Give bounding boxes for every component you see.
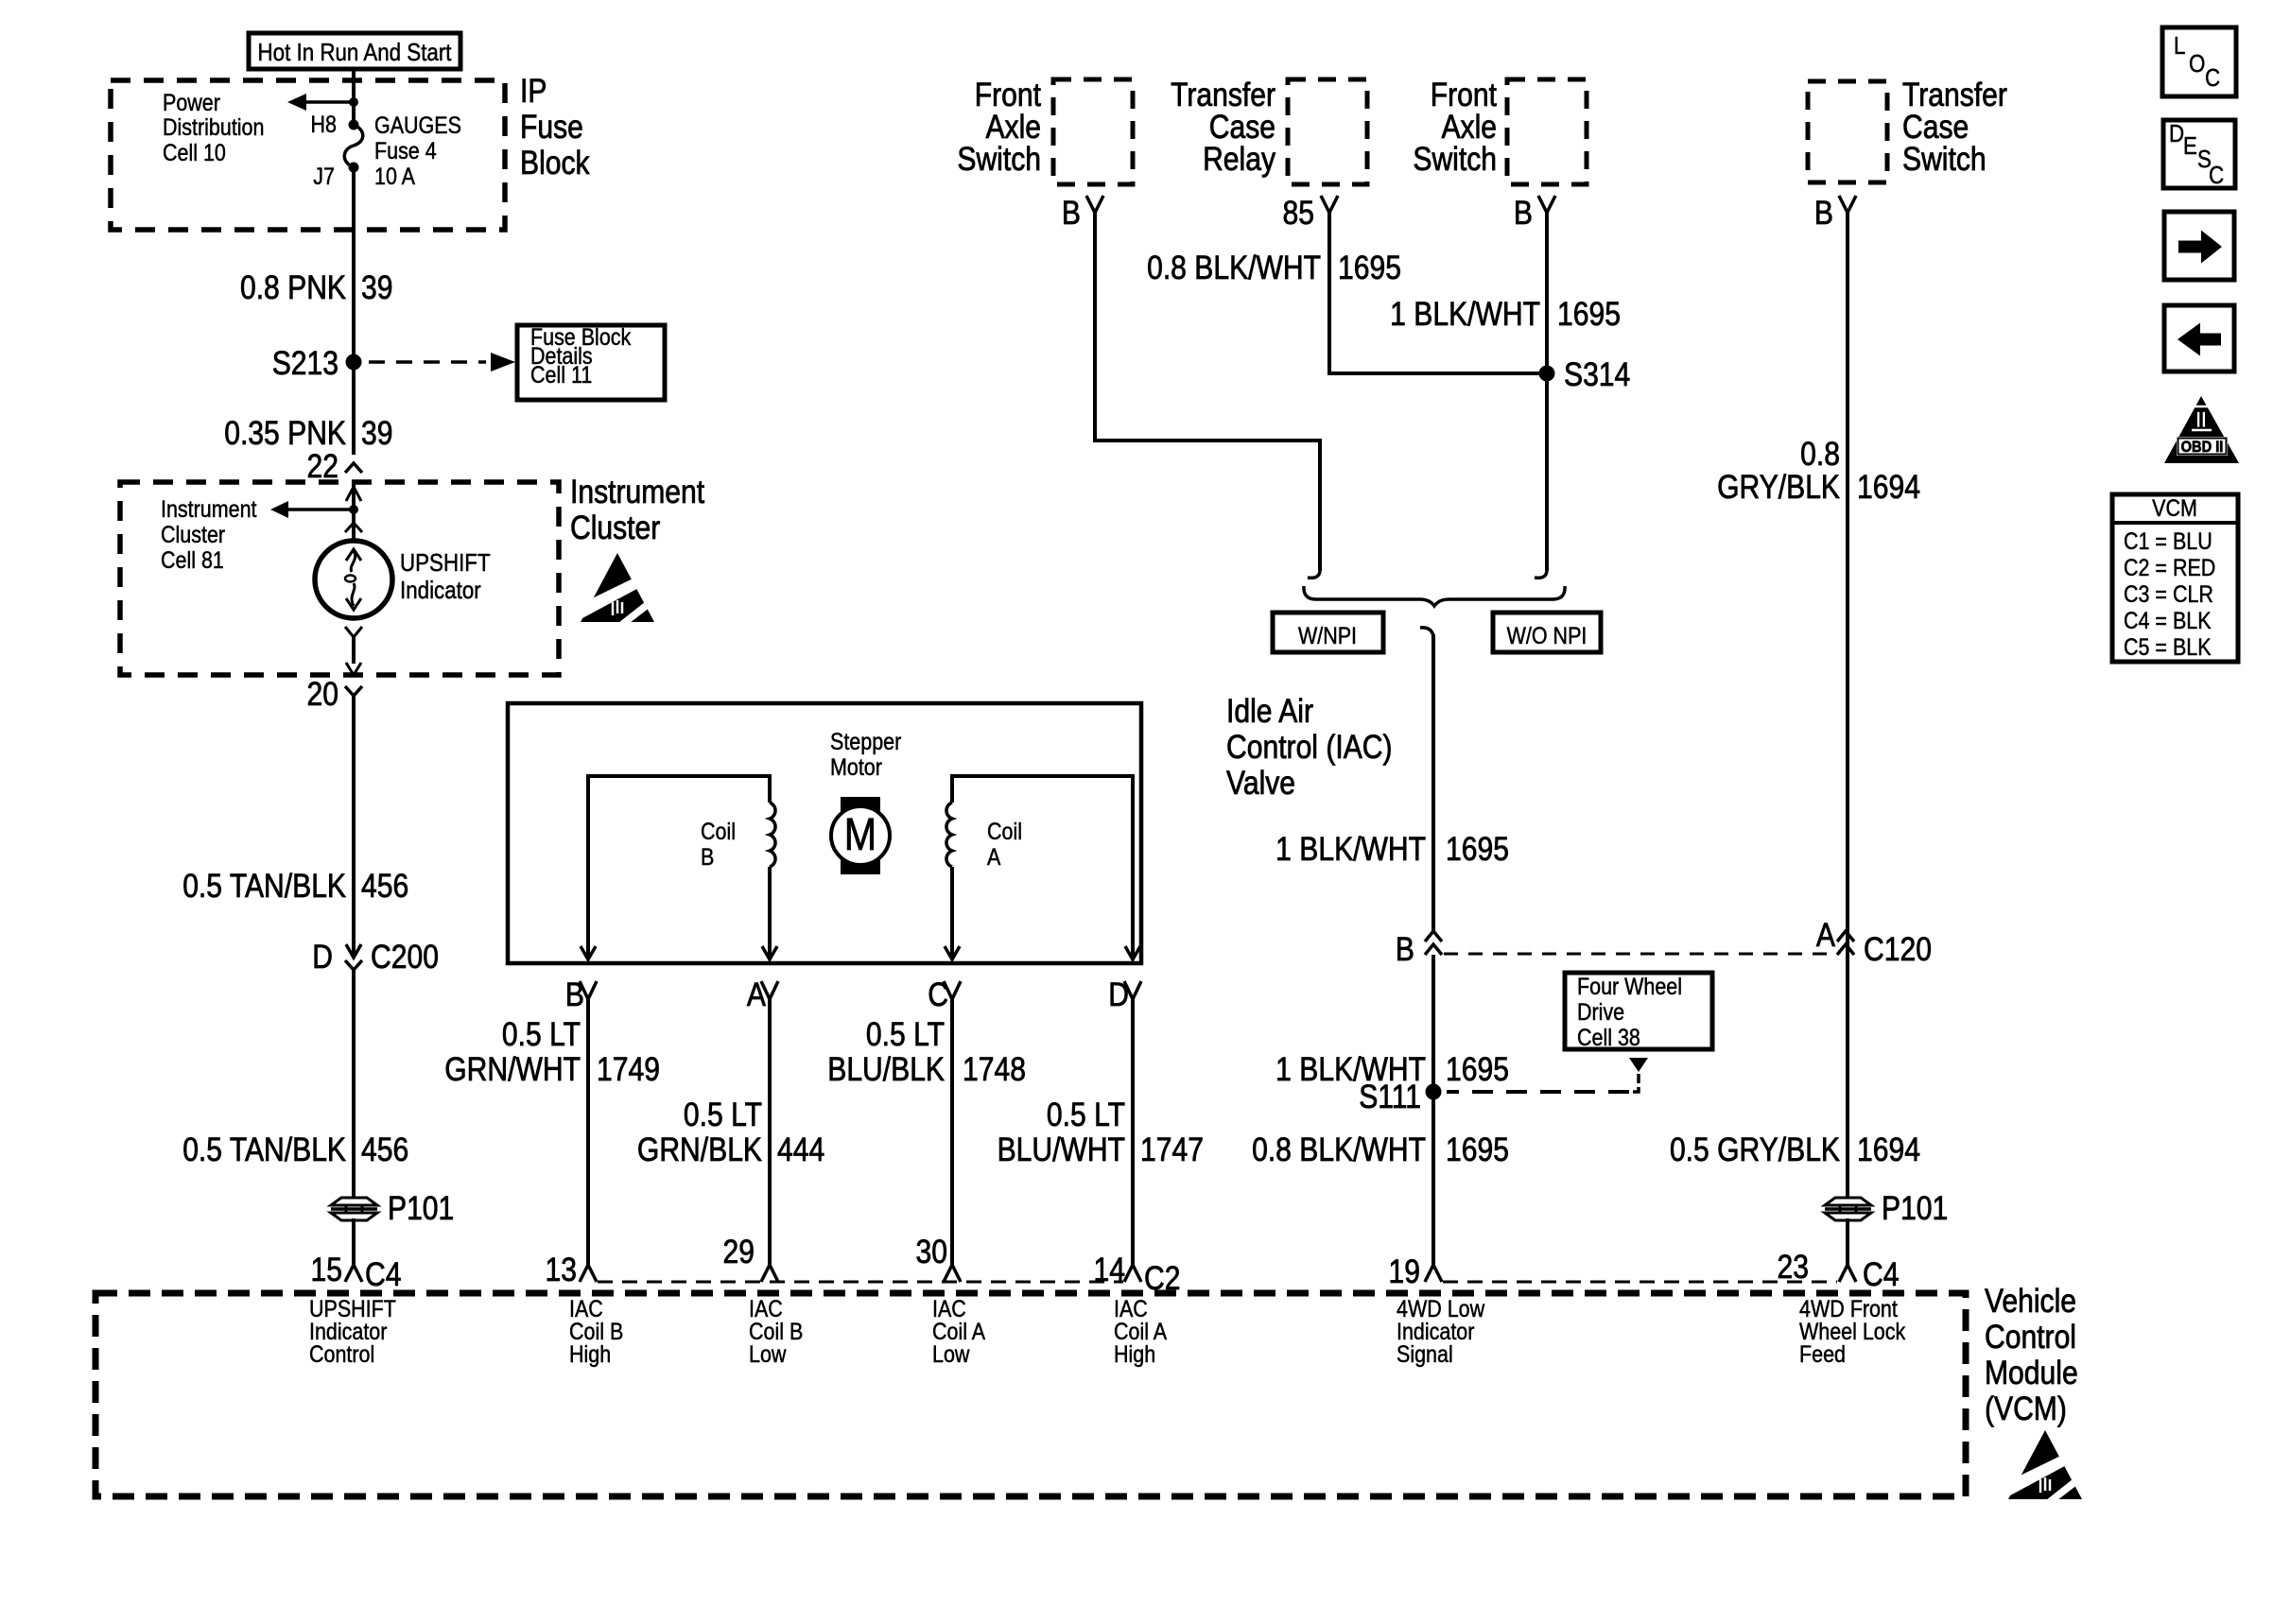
svg-text:10 A: 10 A (374, 163, 415, 189)
Transfer Case Relay dashed box (1288, 79, 1367, 184)
ESD symbol (VCM) (2006, 1430, 2084, 1500)
svg-text:85: 85 (1283, 194, 1314, 232)
svg-text:S213: S213 (272, 344, 338, 382)
Coil B label (701, 818, 736, 870)
svg-text:0.8 BLK/WHT: 0.8 BLK/WHT (1147, 249, 1321, 286)
svg-text:Coil: Coil (987, 818, 1022, 844)
svg-text:19: 19 (1389, 1253, 1420, 1290)
wire IAC C to VCM 30 (950, 999, 954, 1265)
svg-text:Vehicle: Vehicle (1985, 1282, 2076, 1320)
svg-text:0.35 PNK: 0.35 PNK (224, 414, 346, 452)
svg-text:B: B (1514, 194, 1533, 232)
svg-text:Cell 81: Cell 81 (161, 546, 224, 573)
VCM pin 13 connector (546, 1251, 597, 1288)
svg-text:Module: Module (1985, 1354, 2078, 1391)
VCM connector color table (2112, 494, 2238, 662)
fuse F4 (GAUGES Fuse 4 10A) (344, 120, 363, 173)
pin 15 function label (309, 1295, 396, 1367)
svg-text:C1 = BLU: C1 = BLU (2124, 527, 2212, 554)
svg-text:29: 29 (723, 1233, 755, 1270)
VCM pin 23 / C4 connector (1778, 1248, 1900, 1293)
IAC valve U2 outer box (508, 703, 1141, 963)
output wire hook below brace (1420, 628, 1433, 636)
svg-text:Control: Control (309, 1340, 374, 1367)
svg-text:Power: Power (163, 89, 220, 115)
svg-text:Distribution: Distribution (163, 113, 264, 140)
svg-text:0.8 BLK/WHT: 0.8 BLK/WHT (1252, 1131, 1426, 1168)
dashed arrow to Fuse Block Details (369, 353, 515, 371)
pin 29 function label (749, 1295, 803, 1367)
svg-text:C3 = CLR: C3 = CLR (2124, 580, 2213, 607)
svg-text:S111: S111 (1359, 1078, 1421, 1115)
svg-text:D: D (1108, 976, 1129, 1013)
OBD II icon triangle (2164, 396, 2239, 463)
svg-text:B: B (1062, 194, 1081, 232)
svg-text:1695: 1695 (1557, 295, 1621, 333)
svg-text:0.5 LT: 0.5 LT (502, 1015, 581, 1053)
svg-text:II: II (2195, 407, 2206, 433)
svg-text:456: 456 (361, 867, 408, 905)
svg-text:Control: Control (1985, 1318, 2076, 1356)
stepper motor M symbol (831, 797, 890, 874)
splice S111 (1359, 1078, 1441, 1115)
Instrument Cluster title (570, 473, 704, 546)
back arrow icon box (2164, 305, 2234, 371)
svg-text:20: 20 (307, 675, 338, 713)
connector C120 pin A (1837, 931, 1854, 955)
svg-text:0.5 LT: 0.5 LT (1047, 1096, 1125, 1133)
svg-text:Motor: Motor (830, 753, 882, 780)
node: Hot In Run And Start label box (249, 33, 460, 69)
IAC pin A connector (747, 976, 778, 1013)
wire IAC D to VCM 14 (1131, 999, 1135, 1265)
svg-text:High: High (569, 1340, 611, 1367)
svg-text:D: D (312, 938, 333, 976)
svg-text:M: M (844, 809, 876, 860)
svg-text:0.5 LT: 0.5 LT (684, 1096, 762, 1133)
svg-text:Cell 38: Cell 38 (1577, 1024, 1640, 1050)
svg-text:Stepper: Stepper (830, 728, 901, 754)
svg-text:39: 39 (361, 414, 392, 452)
svg-text:0.5 LT: 0.5 LT (866, 1015, 945, 1053)
svg-text:C: C (2209, 162, 2224, 189)
UPSHIFT Indicator label (400, 549, 491, 604)
svg-text:22: 22 (307, 447, 338, 485)
svg-text:1695: 1695 (1446, 1050, 1509, 1088)
forward arrow icon box (2164, 212, 2234, 280)
svg-text:1694: 1694 (1857, 1131, 1920, 1168)
svg-text:Valve: Valve (1226, 764, 1295, 802)
svg-text:Cell 11: Cell 11 (530, 361, 592, 388)
IAC pin B connector (565, 976, 597, 1013)
svg-text:GRN/WHT: GRN/WHT (444, 1050, 581, 1088)
svg-text:1694: 1694 (1857, 468, 1920, 506)
pin 19 function label (1397, 1295, 1484, 1367)
reference triangle + dashed link to S111 (1447, 1058, 1648, 1092)
svg-text:Idle Air: Idle Air (1226, 692, 1313, 730)
svg-text:B: B (1814, 194, 1833, 232)
arrow to Power Distribution (287, 94, 358, 111)
VCM pin 29 connector (723, 1233, 778, 1282)
pin 30 function label (932, 1295, 986, 1367)
VCM title (1985, 1282, 2078, 1427)
svg-text:Fuse 4: Fuse 4 (374, 137, 437, 164)
svg-text:Low: Low (749, 1340, 787, 1367)
Instrument Cluster Cell 81 label (161, 495, 257, 573)
svg-text:15: 15 (311, 1251, 342, 1288)
wire from right B through S314 to brace (1545, 213, 1549, 571)
svg-text:GRN/BLK: GRN/BLK (637, 1131, 762, 1168)
option brace (wiring options merge) (1304, 586, 1565, 606)
wire from 85 to S314 (1329, 213, 1539, 373)
svg-text:0.5 TAN/BLK: 0.5 TAN/BLK (182, 1131, 346, 1168)
IP Fuse Block dashed box (111, 80, 505, 230)
svg-text:0.5 TAN/BLK: 0.5 TAN/BLK (182, 867, 346, 905)
svg-text:J7: J7 (313, 163, 335, 189)
pin 23 function label (1799, 1295, 1906, 1367)
svg-text:Coil: Coil (701, 818, 736, 844)
node: W/NPI option box (1273, 613, 1383, 652)
svg-text:0.5 GRY/BLK: 0.5 GRY/BLK (1670, 1131, 1840, 1168)
wire from left B to brace (1095, 213, 1320, 571)
svg-text:H8: H8 (311, 111, 337, 137)
svg-text:P101: P101 (388, 1189, 454, 1227)
wire: 0.8 GRY/BLK 1694 (1846, 213, 1849, 1200)
IAC pin C connector (928, 976, 961, 1013)
svg-text:A: A (1816, 916, 1835, 954)
svg-text:0.8 PNK: 0.8 PNK (240, 268, 346, 306)
svg-text:1747: 1747 (1140, 1131, 1204, 1168)
svg-text:E: E (2183, 132, 2197, 160)
svg-text:456: 456 (361, 1131, 408, 1168)
svg-text:1695: 1695 (1446, 830, 1509, 868)
grommet P101 (right) (1825, 1189, 1948, 1227)
connector chevron above lamp (345, 523, 362, 532)
svg-text:Control (IAC): Control (IAC) (1226, 728, 1393, 766)
svg-text:1 BLK/WHT: 1 BLK/WHT (1275, 830, 1426, 868)
svg-text:B: B (1396, 930, 1414, 968)
junction dot + arrow to Instrument Cluster label (270, 501, 358, 518)
svg-text:1748: 1748 (963, 1050, 1026, 1088)
fuse value label (374, 112, 461, 189)
svg-text:BLU/BLK: BLU/BLK (827, 1050, 945, 1088)
svg-text:L: L (2174, 32, 2185, 60)
wire: hot feed into fuse (352, 69, 356, 125)
svg-text:Feed: Feed (1799, 1340, 1846, 1367)
svg-text:GAUGES: GAUGES (374, 112, 461, 138)
DESC icon box (2163, 120, 2235, 189)
wire IAC B to VCM 13 (586, 999, 590, 1265)
svg-text:23: 23 (1778, 1248, 1809, 1286)
pin 14 function label (1114, 1295, 1168, 1367)
svg-text:UPSHIFT: UPSHIFT (400, 549, 491, 577)
svg-text:P101: P101 (1882, 1189, 1948, 1227)
pin 15 / C4 connector (311, 1251, 402, 1293)
svg-text:Indicator: Indicator (400, 577, 481, 604)
connector C120 pin B (1425, 931, 1442, 955)
svg-text:C4: C4 (365, 1255, 401, 1293)
pin 20 connector (307, 675, 362, 713)
connector chevron below lamp + exit arrow (345, 627, 362, 675)
svg-text:1 BLK/WHT: 1 BLK/WHT (1390, 295, 1540, 333)
svg-text:S314: S314 (1564, 355, 1630, 393)
Transfer Case Switch dashed box (1808, 81, 1887, 182)
svg-text:Instrument: Instrument (161, 495, 257, 522)
pin 13 function label (569, 1295, 623, 1367)
Vehicle Control Module (VCM) dashed box (95, 1293, 1966, 1496)
svg-text:Cluster: Cluster (161, 521, 225, 547)
wire: 0.8 PNK 39 from fuse to S213 (352, 167, 356, 455)
svg-text:Relay: Relay (1203, 140, 1276, 178)
dashed connector face line C4 (right) (1443, 1281, 1837, 1284)
svg-text:(VCM): (VCM) (1985, 1390, 2067, 1427)
svg-text:Switch: Switch (957, 140, 1041, 178)
wire: 1 BLK/WHT 1695 to B C120 (1431, 634, 1435, 931)
wire below B to VCM 19 (1431, 955, 1435, 1265)
Front Axle Switch (right) dashed box (1507, 79, 1587, 184)
dashed connector face line C2 (598, 1281, 1123, 1284)
svg-text:1749: 1749 (597, 1050, 660, 1088)
Stepper Motor label (830, 728, 901, 780)
svg-text:C2 = RED: C2 = RED (2124, 554, 2215, 580)
wire into cluster with up arrow (346, 484, 361, 541)
pin B (front axle switch left) (1062, 194, 1103, 232)
pin B (transfer case switch) (1814, 194, 1856, 232)
wire: 0.5 TAN/BLK 456 lower (352, 970, 356, 1200)
connector C200 pin D (345, 944, 362, 970)
node: Fuse Block Details Cell 11 box (517, 323, 665, 400)
svg-text:W/NPI: W/NPI (1298, 622, 1357, 648)
svg-text:Fuse: Fuse (520, 108, 583, 146)
IAC pin D connector (1108, 976, 1141, 1013)
Coil A label (987, 818, 1022, 870)
svg-text:C: C (2205, 64, 2220, 92)
Front Axle Switch (left) dashed box (1053, 79, 1133, 184)
node: W/O NPI option box (1493, 613, 1601, 652)
svg-text:Switch: Switch (1902, 140, 1987, 178)
svg-text:Instrument: Instrument (570, 473, 704, 510)
svg-text:Four Wheel: Four Wheel (1577, 973, 1682, 999)
node: Four Wheel Drive Cell 38 box (1565, 973, 1712, 1050)
svg-text:Hot In Run And Start: Hot In Run And Start (258, 39, 452, 66)
Power Distribution Cell 10 label (163, 89, 264, 165)
grommet P101 (left) (331, 1189, 454, 1227)
svg-text:Block: Block (520, 144, 590, 181)
svg-text:C: C (928, 976, 948, 1013)
svg-text:W/O NPI: W/O NPI (1507, 622, 1588, 648)
svg-text:B: B (701, 843, 714, 870)
svg-text:13: 13 (546, 1251, 577, 1288)
VCM pin 19 connector (1389, 1253, 1442, 1290)
LOC icon box (2162, 27, 2236, 96)
svg-text:O: O (2189, 50, 2205, 78)
svg-text:Drive: Drive (1577, 998, 1624, 1025)
wire: 0.5 TAN/BLK 456 upper (352, 696, 356, 958)
svg-text:Cell 10: Cell 10 (163, 139, 226, 165)
splice S314 (1539, 355, 1631, 393)
svg-text:30: 30 (916, 1233, 947, 1270)
svg-text:D: D (2169, 120, 2184, 147)
svg-text:High: High (1114, 1340, 1155, 1367)
VCM pin 14 / C2 connector (1094, 1251, 1181, 1297)
splice S213 (272, 344, 362, 382)
svg-text:VCM: VCM (2152, 494, 2197, 521)
wire label 0.35 PNK 39 (224, 414, 392, 452)
ESD symbol (instrument cluster) (579, 553, 656, 623)
pin B (front axle switch right) (1514, 194, 1555, 232)
svg-text:C5 = BLK: C5 = BLK (2124, 633, 2212, 660)
svg-text:0.8: 0.8 (1800, 435, 1840, 473)
Idle Air Control (IAC) Valve title (1226, 692, 1393, 802)
svg-text:BLU/WHT: BLU/WHT (998, 1131, 1125, 1168)
svg-text:1695: 1695 (1338, 249, 1401, 286)
svg-text:B: B (565, 976, 584, 1013)
svg-text:A: A (747, 976, 766, 1013)
svg-text:Signal: Signal (1397, 1340, 1453, 1367)
coil B (IAC) (581, 776, 777, 959)
svg-text:A: A (987, 843, 1001, 870)
UPSHIFT indicator lamp U1 (315, 541, 392, 618)
svg-text:1695: 1695 (1446, 1131, 1509, 1168)
pin 22 connector (345, 463, 362, 473)
svg-text:Low: Low (932, 1340, 970, 1367)
pin 85 (transfer case relay) (1283, 194, 1338, 232)
wire to VCM pin 15 (352, 1218, 356, 1265)
svg-text:C200: C200 (371, 938, 439, 976)
coil A (IAC) (945, 776, 1140, 959)
VCM pin 30 connector (916, 1233, 961, 1282)
Instrument Cluster dashed box (120, 482, 559, 675)
wire IAC A to VCM 29 (768, 999, 772, 1265)
svg-text:GRY/BLK: GRY/BLK (1717, 468, 1840, 506)
svg-text:39: 39 (361, 268, 392, 306)
svg-text:Switch: Switch (1413, 140, 1497, 178)
svg-text:C120: C120 (1864, 930, 1932, 968)
svg-text:OBD II: OBD II (2181, 439, 2224, 456)
IP Fuse Block title (520, 72, 590, 181)
svg-text:Cluster: Cluster (570, 509, 660, 546)
svg-text:IP: IP (520, 72, 547, 110)
svg-text:444: 444 (777, 1131, 824, 1168)
dashed connector face line C120 (1444, 953, 1831, 956)
svg-text:C4: C4 (1863, 1255, 1899, 1293)
svg-text:C4 = BLK: C4 = BLK (2124, 607, 2212, 633)
